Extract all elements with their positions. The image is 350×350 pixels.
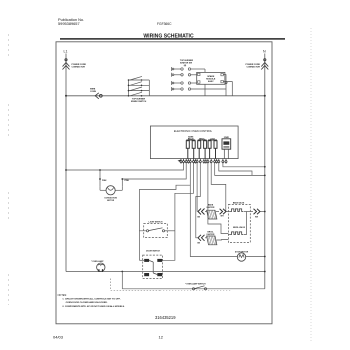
relay DLB in EOC	[208, 140, 217, 159]
svg-text:XFMR: XFMR	[224, 137, 230, 139]
svg-text:CONNECTOR: CONNECTOR	[247, 67, 261, 69]
wire EOC pin3 to light switch and door motor	[190, 163, 237, 256]
svg-text:ELECTRONIC OVEN CONTROL: ELECTRONIC OVEN CONTROL	[174, 129, 213, 133]
electronic oven control box	[150, 126, 238, 159]
transformer in EOC	[222, 139, 231, 149]
svg-text:5995389657: 5995389657	[58, 21, 80, 26]
svg-text:LOCK: LOCK	[210, 139, 216, 141]
connector on wire	[225, 81, 227, 83]
bake ignitor element	[207, 210, 217, 219]
svg-text:IGNITOR: IGNITOR	[207, 207, 215, 209]
svg-text:SPARK SWITCH: SPARK SWITCH	[131, 100, 147, 103]
svg-text:(4): (4)	[184, 64, 187, 67]
wire spark module bottom to bus	[204, 84, 206, 96]
door switch contacts	[144, 259, 149, 262]
wire EOC pin13 to N bus	[223, 163, 265, 167]
wire N vertical bus	[264, 54, 266, 289]
wire EOC pin1 to L1 bus	[66, 163, 184, 170]
bake ignitor connector right	[220, 209, 226, 215]
light switch dashed box	[144, 224, 168, 238]
relay BAKE in EOC	[186, 140, 195, 159]
svg-text:SPARK: SPARK	[207, 75, 215, 78]
svg-text:* OVEN LAMP: * OVEN LAMP	[91, 260, 104, 263]
connector on bus	[95, 93, 102, 99]
wire main horizontal bus	[66, 95, 265, 97]
svg-text:BROIL: BROIL	[199, 139, 205, 141]
svg-text:BK: BK	[198, 243, 201, 245]
svg-text:* OVEN LAMP SWITCH: * OVEN LAMP SWITCH	[185, 282, 206, 285]
svg-text:12: 12	[159, 335, 164, 340]
page edge dotted line right	[310, 28, 312, 342]
junction drop to lamp switch line	[121, 271, 123, 273]
spark module box	[197, 72, 225, 84]
ignitor switch row 1	[172, 67, 206, 72]
wire EOC pin6 to broil ignitor	[196, 163, 201, 238]
svg-text:OVEN DOOR CLOSED AND UNLOCKED.: OVEN DOOR CLOSED AND UNLOCKED.	[66, 301, 108, 304]
bottom neutral line	[66, 271, 265, 273]
safety valve dashed box	[228, 205, 250, 243]
power cord connector N	[261, 59, 268, 70]
wire door switch left feed	[138, 231, 140, 260]
svg-text:BAKE VALVE: BAKE VALVE	[233, 202, 245, 205]
wire EOC pin2 to lamp right	[122, 163, 186, 179]
broil valve coil	[231, 232, 243, 235]
svg-text:ASSY: ASSY	[208, 80, 214, 83]
svg-text:PINK: PINK	[102, 180, 107, 182]
broil ignitor element	[207, 236, 217, 245]
door switch dashed box	[143, 255, 163, 278]
svg-text:POWER CORD: POWER CORD	[72, 64, 87, 66]
EOC pin strip	[178, 159, 228, 164]
bake ignitor connector left	[198, 209, 205, 215]
svg-text:L1: L1	[64, 50, 68, 54]
schematic outer border	[56, 42, 272, 324]
wire EOC pin4 to door switch	[162, 163, 193, 260]
svg-text:DOOR SWITCH: DOOR SWITCH	[146, 250, 160, 252]
lamp circle	[106, 186, 115, 195]
wire spark module right-bottom to bus	[223, 82, 232, 96]
oven lamp switch line	[122, 288, 264, 290]
ignitor switch row 2	[172, 73, 197, 77]
wire spark module right-top to bus	[223, 75, 226, 96]
bake valve coil	[231, 209, 243, 212]
wire EOC pin10 to N bus	[215, 163, 265, 175]
broil ignitor connector left	[198, 235, 205, 241]
svg-text:POWER CORD: POWER CORD	[246, 64, 261, 66]
header thick rule	[60, 38, 285, 39]
svg-text:LIGHT SWITCH: LIGHT SWITCH	[149, 221, 163, 223]
junction bus-N	[264, 95, 266, 97]
svg-text:PINK: PINK	[125, 180, 130, 182]
ignitor switch row 4	[172, 87, 227, 91]
wire broil element to valve box	[217, 239, 229, 242]
page edge dashes left	[8, 34, 10, 58]
wire EOC pin8 to valve box	[208, 163, 229, 233]
svg-text:2. COMPONENTS MTD. AT OR NOT: 2. COMPONENTS MTD. AT OR NOT USED ON ALL…	[62, 305, 125, 308]
oven lamp	[97, 263, 105, 271]
svg-text:BROIL VALVE: BROIL VALVE	[233, 226, 246, 229]
junction	[65, 169, 67, 171]
wire L1 vertical bus	[65, 54, 67, 272]
svg-text:N: N	[263, 50, 266, 54]
svg-text:FGF366C: FGF366C	[157, 22, 172, 26]
svg-text:MOTOR: MOTOR	[107, 200, 115, 202]
optional enclosure dash-dot	[111, 279, 160, 291]
svg-text:RELAY: RELAY	[188, 138, 195, 141]
svg-text:CONNECTOR: CONNECTOR	[72, 67, 86, 69]
svg-text:WH: WH	[221, 215, 225, 217]
wire EOC pin5 to bake ignitor	[196, 163, 198, 211]
power cord connector L1	[63, 59, 70, 70]
svg-text:NOTES:: NOTES:	[58, 294, 68, 297]
wire EOC pin12 to N bus	[219, 163, 252, 175]
svg-text:04/03: 04/03	[53, 335, 64, 340]
wire EOC pin9 to valve line	[211, 163, 226, 211]
switch block: top burner spark switches	[129, 76, 150, 95]
svg-text:WH: WH	[255, 217, 259, 219]
svg-text:1. CIRCUIT SHOWN WITH ALL CON: 1. CIRCUIT SHOWN WITH ALL CONTROLS SET T…	[62, 298, 120, 301]
relay BROIL in EOC	[198, 140, 207, 159]
svg-text:CONN: CONN	[90, 91, 96, 93]
junction bus-L1	[65, 95, 67, 97]
svg-text:316435219: 316435219	[155, 315, 176, 320]
ignitor switch row 3	[172, 81, 197, 85]
oven lamp assembly bracket	[100, 170, 122, 190]
connector valve to N	[254, 209, 261, 215]
svg-text:BK: BK	[198, 216, 201, 218]
